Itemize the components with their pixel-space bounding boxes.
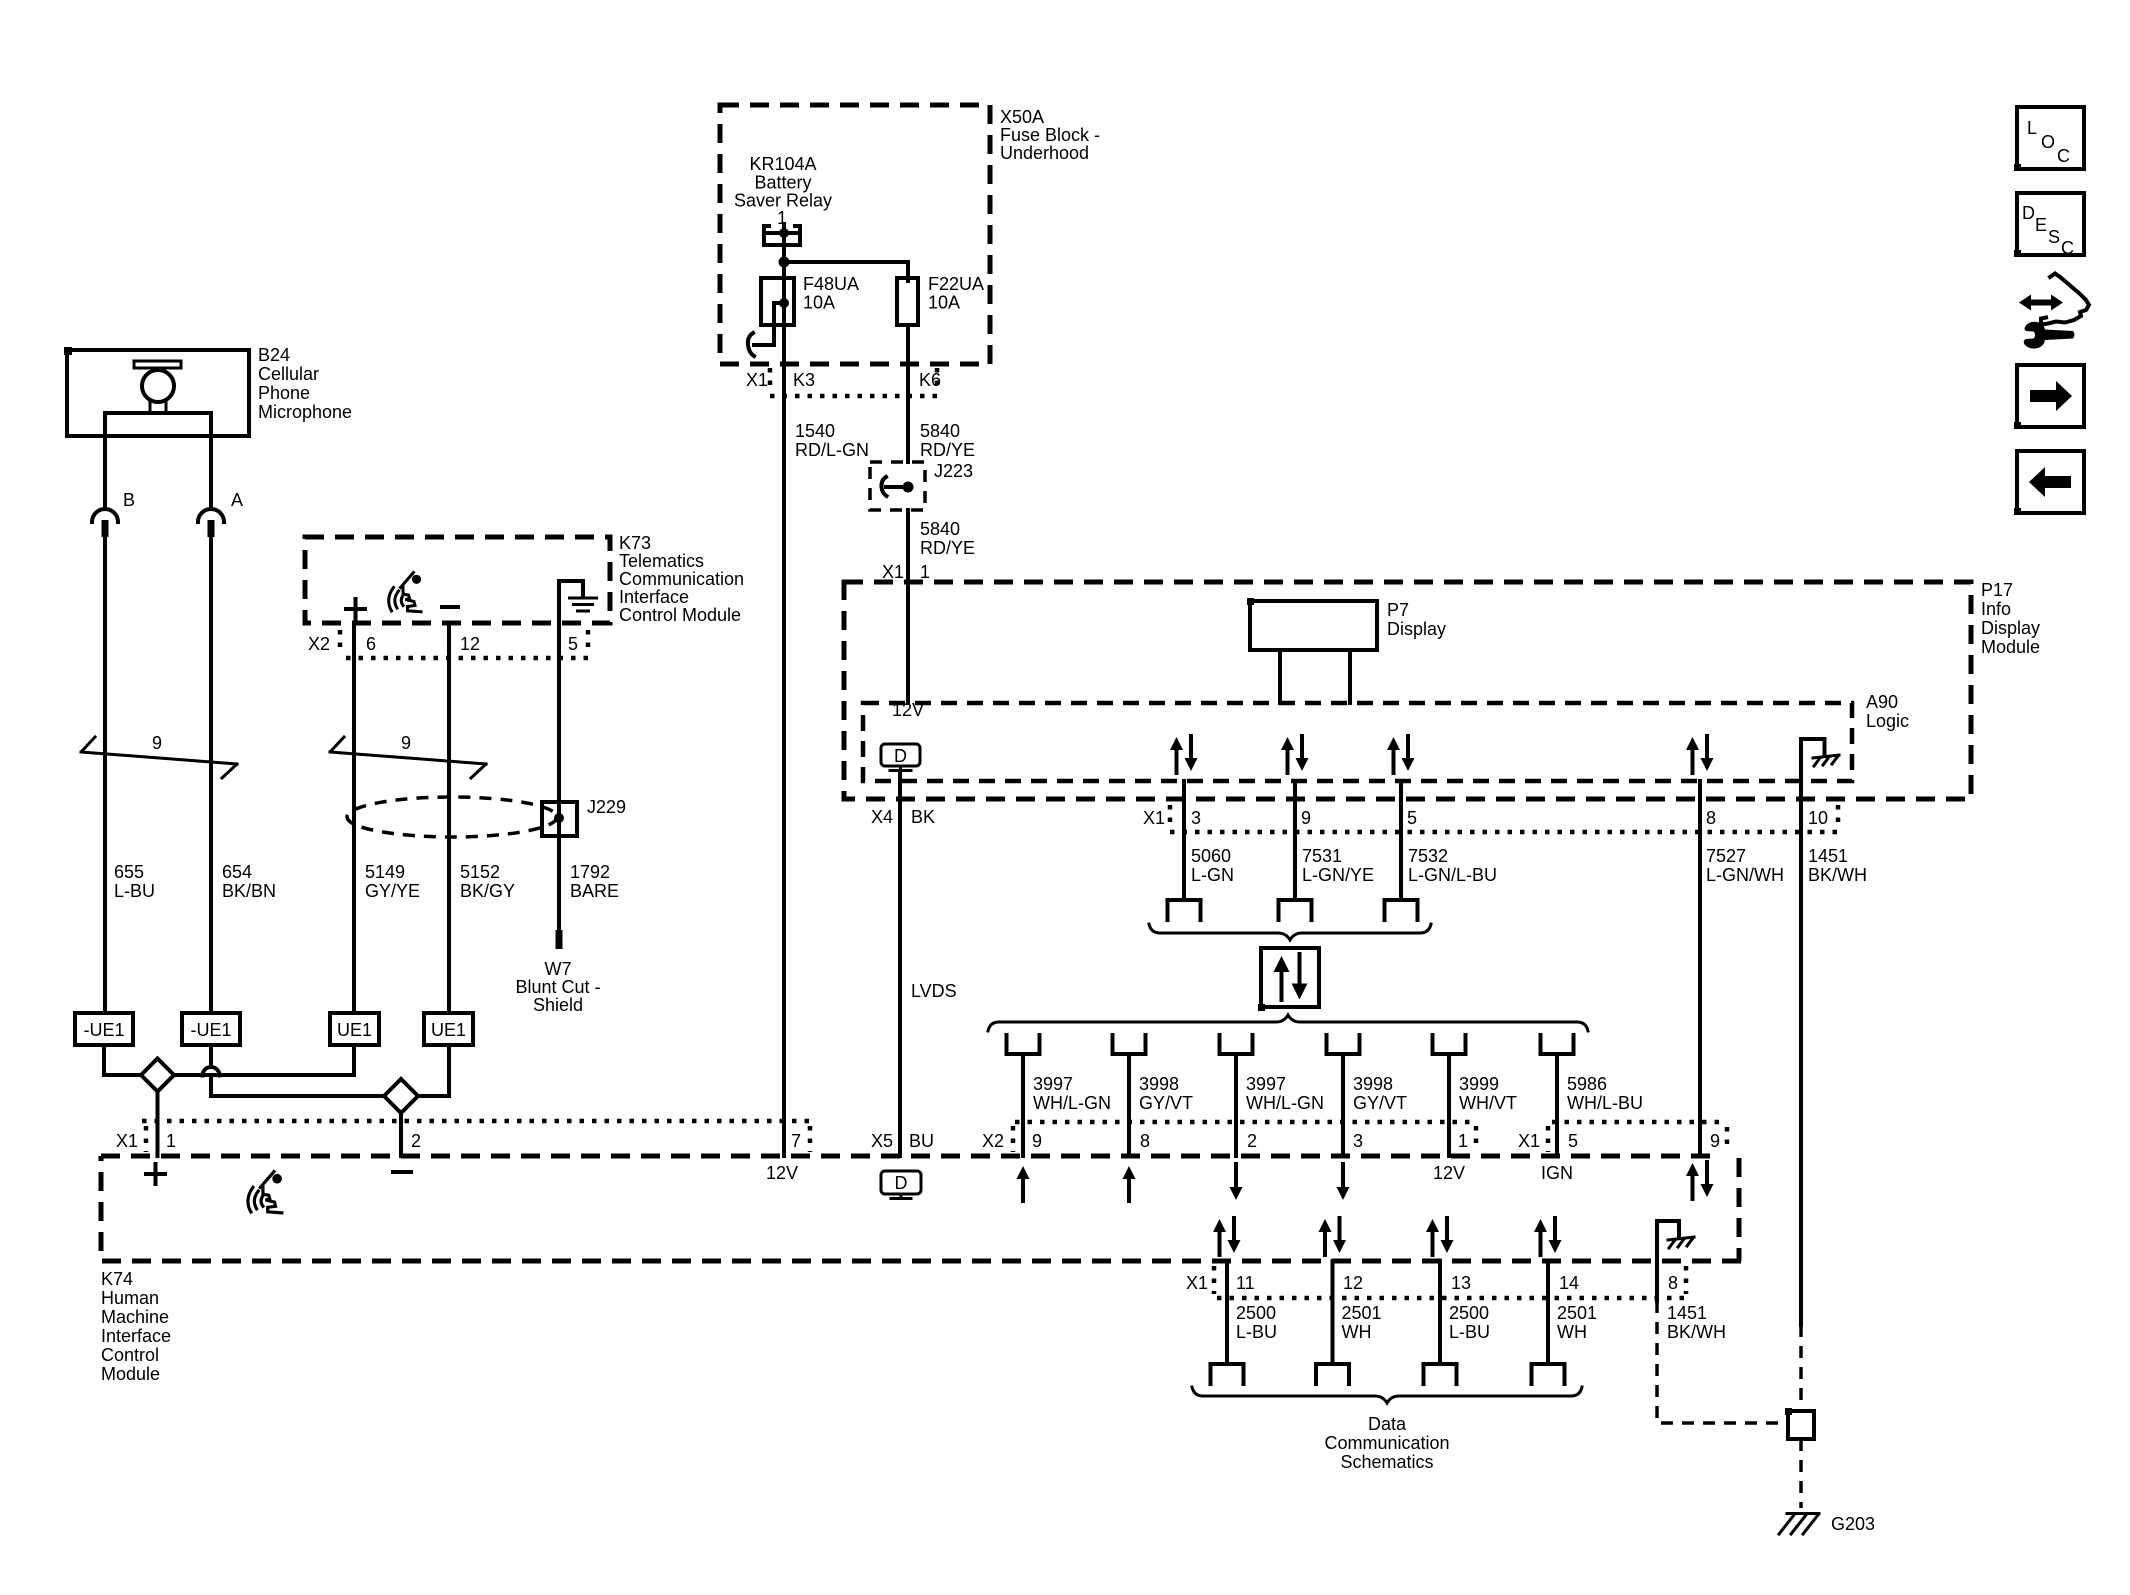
svg-text:L-GN: L-GN — [1191, 865, 1234, 885]
svg-text:UE1: UE1 — [337, 1020, 372, 1040]
wire 5840 RD/YE lower — [908, 510, 975, 582]
ground splice box — [1785, 1408, 1814, 1439]
svg-text:9: 9 — [401, 733, 411, 753]
K74 arrow pair pin 14 — [1534, 1218, 1562, 1255]
module K73 Telematics Communication Interface Control Module — [305, 533, 744, 625]
connector X1 row of K74 right (pins 5,9) — [1518, 1122, 1727, 1152]
fuse block X50A box — [720, 105, 990, 364]
wire B (mic to connector) — [105, 436, 135, 510]
svg-text:Control Module: Control Module — [619, 605, 741, 625]
svg-text:Blunt Cut -: Blunt Cut - — [515, 977, 600, 997]
connector half and wire 3998 GY/VT to K74 pin 8 — [1113, 1035, 1194, 1156]
svg-text:7531: 7531 — [1302, 846, 1342, 866]
svg-text:3997: 3997 — [1246, 1074, 1286, 1094]
svg-text:2501: 2501 — [1557, 1303, 1597, 1323]
svg-text:Fuse Block -: Fuse Block - — [1000, 125, 1100, 145]
svg-text:BARE: BARE — [570, 881, 619, 901]
wire 7527 L-GN/WH — [1700, 781, 1784, 1156]
svg-text:Human: Human — [101, 1288, 159, 1308]
svg-text:14: 14 — [1559, 1273, 1579, 1293]
svg-text:L-GN/L-BU: L-GN/L-BU — [1408, 865, 1497, 885]
connector X4 of P17 — [871, 807, 935, 827]
wire 1451 BK/WH from K74 pin 8 — [1657, 1261, 1788, 1423]
svg-text:9: 9 — [152, 733, 162, 753]
svg-text:1: 1 — [1458, 1131, 1468, 1151]
net label -UE1 (A) — [182, 1013, 240, 1045]
svg-text:11: 11 — [1236, 1273, 1255, 1293]
connector X1 row (K3, K6) of fuse block — [746, 368, 941, 396]
LVDS bus symbol box — [1258, 948, 1319, 1011]
arrow pair A90 pin 9 — [1281, 736, 1309, 773]
wire 2500 L-BU and connector half — [1211, 1261, 1278, 1384]
inline connector B — [92, 509, 118, 537]
svg-text:WH/L-GN: WH/L-GN — [1246, 1093, 1324, 1113]
svg-text:10A: 10A — [803, 293, 835, 313]
svg-text:12V: 12V — [766, 1163, 798, 1183]
wire -UE1 B to diamond — [104, 1045, 141, 1075]
icon LOC box — [2014, 107, 2084, 171]
svg-text:LVDS: LVDS — [911, 981, 957, 1001]
net label UE1 (5149) — [330, 1013, 379, 1045]
svg-text:5: 5 — [568, 634, 578, 654]
wire label 5840 RD/YE upper — [920, 421, 975, 460]
fuse F22UA 10A — [897, 262, 984, 462]
svg-text:WH: WH — [1342, 1322, 1372, 1342]
wire 5149 GY/YE — [354, 623, 420, 1013]
wire 2500 L-BU and connector half — [1424, 1261, 1491, 1384]
svg-text:X2: X2 — [308, 634, 330, 654]
svg-text:1540: 1540 — [795, 421, 835, 441]
svg-text:Telematics: Telematics — [619, 551, 704, 571]
svg-text:5: 5 — [1407, 808, 1417, 828]
connector half pin5 — [1385, 900, 1418, 920]
svg-text:K3: K3 — [793, 370, 815, 390]
svg-text:10: 10 — [1808, 808, 1828, 828]
wire diamond2 to K74 pin 2 — [399, 1113, 403, 1156]
svg-text:BK/BN: BK/BN — [222, 881, 276, 901]
svg-text:X2: X2 — [982, 1131, 1004, 1151]
wire 1451 BK/WH right — [1801, 781, 1867, 1411]
module B24 Cellular Phone Microphone — [64, 345, 352, 436]
svg-text:Underhood: Underhood — [1000, 143, 1089, 163]
wire A (mic to connector) — [211, 436, 243, 510]
svg-text:BU: BU — [909, 1131, 934, 1151]
svg-text:O: O — [2041, 132, 2055, 152]
K74 arrow pair pin 12 — [1319, 1218, 1347, 1255]
svg-text:5840: 5840 — [920, 519, 960, 539]
wire 7531 L-GN/YE — [1295, 781, 1374, 900]
svg-text:GY/VT: GY/VT — [1353, 1093, 1407, 1113]
svg-text:X1: X1 — [1186, 1273, 1208, 1293]
svg-text:BK/WH: BK/WH — [1667, 1322, 1726, 1342]
svg-text:X50A: X50A — [1000, 107, 1044, 127]
svg-text:GY/YE: GY/YE — [365, 881, 420, 901]
svg-text:B: B — [123, 490, 135, 510]
svg-text:2: 2 — [1247, 1131, 1257, 1151]
module K74 Human Machine Interface Control Module — [101, 1156, 1741, 1384]
svg-text:Interface: Interface — [619, 587, 689, 607]
svg-text:1451: 1451 — [1808, 846, 1848, 866]
K74 arrow pair pin 13 — [1426, 1218, 1454, 1255]
svg-text:9: 9 — [1032, 1131, 1042, 1151]
svg-text:A90: A90 — [1866, 692, 1898, 712]
svg-text:D: D — [894, 746, 907, 766]
wire 2501 WH and connector half — [1316, 1261, 1382, 1384]
svg-text:Battery: Battery — [754, 173, 811, 193]
svg-text:3998: 3998 — [1353, 1074, 1393, 1094]
svg-text:X1: X1 — [1518, 1131, 1540, 1151]
svg-text:Schematics: Schematics — [1340, 1452, 1433, 1472]
svg-text:RD/YE: RD/YE — [920, 538, 975, 558]
svg-text:12: 12 — [1343, 1273, 1363, 1293]
svg-text:3: 3 — [1353, 1131, 1363, 1151]
svg-text:7532: 7532 — [1408, 846, 1448, 866]
svg-text:1451: 1451 — [1667, 1303, 1707, 1323]
arrow pair A90 pin 3 — [1170, 736, 1198, 773]
svg-text:C: C — [2057, 146, 2070, 166]
wire 5060 L-GN — [1184, 781, 1234, 900]
connector X2 row of K73 (pins 6,12,5) — [308, 630, 590, 658]
wire 2501 WH and connector half — [1532, 1261, 1598, 1384]
brace gathering LVDS lines — [1149, 924, 1431, 940]
svg-text:6: 6 — [366, 634, 376, 654]
K74 12V label (pin 7) — [766, 1163, 798, 1183]
svg-text:F22UA: F22UA — [928, 274, 984, 294]
wire 1792 BARE (shield) — [559, 623, 619, 930]
wire 654 BK/BN — [211, 537, 276, 1013]
icon back arrow box — [2014, 451, 2084, 515]
connector half and wire 3997 WH/L-GN to K74 pin 2 — [1220, 1035, 1325, 1156]
svg-text:UE1: UE1 — [431, 1020, 466, 1040]
connector half and wire 5986 WH/L-BU to K74 pin 5 — [1541, 1035, 1644, 1156]
svg-text:Module: Module — [1981, 637, 2040, 657]
brace Data Communication Schematics — [1192, 1387, 1582, 1472]
svg-text:F48UA: F48UA — [803, 274, 859, 294]
svg-text:-UE1: -UE1 — [190, 1020, 231, 1040]
svg-text:3997: 3997 — [1033, 1074, 1073, 1094]
svg-text:2500: 2500 — [1449, 1303, 1489, 1323]
display D icon in A90 — [881, 744, 920, 771]
svg-text:E: E — [2035, 215, 2047, 235]
svg-text:Display: Display — [1981, 618, 2040, 638]
label X50A Fuse Block - Underhood — [1000, 107, 1100, 163]
wire 655 L-BU — [105, 537, 155, 1013]
splice diamond 2 — [384, 1079, 418, 1113]
svg-text:D: D — [895, 1173, 908, 1193]
svg-text:BK: BK — [911, 807, 935, 827]
svg-text:Microphone: Microphone — [258, 402, 352, 422]
svg-text:Module: Module — [101, 1364, 160, 1384]
net label -UE1 (B) — [75, 1013, 133, 1045]
svg-text:5: 5 — [1568, 1131, 1578, 1151]
svg-text:L-GN/YE: L-GN/YE — [1302, 865, 1374, 885]
svg-text:X4: X4 — [871, 807, 893, 827]
svg-text:3999: 3999 — [1459, 1074, 1499, 1094]
svg-text:KR104A: KR104A — [749, 154, 816, 174]
svg-text:RD/YE: RD/YE — [920, 440, 975, 460]
svg-text:Control: Control — [101, 1345, 159, 1365]
connector half and wire 3999 WH/VT to K74 pin 1 — [1433, 1035, 1518, 1156]
K74 speaker icon — [248, 1172, 282, 1213]
svg-text:C: C — [2061, 238, 2074, 258]
svg-text:IGN: IGN — [1541, 1163, 1573, 1183]
icon forward arrow box — [2014, 365, 2084, 429]
svg-text:8: 8 — [1668, 1273, 1678, 1293]
K73 speaker icon — [389, 573, 421, 612]
net label UE1 (5152) — [424, 1013, 473, 1045]
junction node — [779, 257, 909, 268]
K74 down arrow pin 2 — [1230, 1164, 1243, 1200]
svg-text:9: 9 — [1301, 808, 1311, 828]
svg-text:WH/L-GN: WH/L-GN — [1033, 1093, 1111, 1113]
connector half and wire 3998 GY/VT to K74 pin 3 — [1327, 1035, 1408, 1156]
K74 internal ground (pin 8) — [1657, 1221, 1694, 1261]
relay KR104A contact, pin 1 — [764, 208, 800, 245]
K74 up arrow pin 8 — [1123, 1166, 1136, 1201]
cable marker 9 conductors (left pair) — [81, 733, 237, 778]
svg-text:WH/VT: WH/VT — [1459, 1093, 1517, 1113]
svg-text:K74: K74 — [101, 1269, 133, 1289]
svg-text:L-BU: L-BU — [1449, 1322, 1490, 1342]
svg-text:BK/GY: BK/GY — [460, 881, 515, 901]
icon DESC box — [2014, 193, 2084, 258]
svg-text:Communication: Communication — [1324, 1433, 1449, 1453]
svg-text:Logic: Logic — [1866, 711, 1909, 731]
svg-text:Info: Info — [1981, 599, 2011, 619]
wire 1540 RD/L-GN (fuse K3 down to K74 pin 7) — [784, 364, 869, 1156]
wire LVDS X4 to K74 X5 — [871, 771, 957, 1156]
arrow pair A90 pin 8 — [1686, 736, 1714, 773]
svg-text:A: A — [231, 490, 243, 510]
svg-text:BK/WH: BK/WH — [1808, 865, 1867, 885]
svg-text:GY/VT: GY/VT — [1139, 1093, 1193, 1113]
arrow pair A90 pin 5 — [1387, 736, 1415, 773]
svg-text:1792: 1792 — [570, 862, 610, 882]
K74 plus terminal — [146, 1164, 165, 1184]
svg-text:1: 1 — [920, 562, 930, 582]
A90 internal ground — [1801, 739, 1839, 781]
ground G203 — [1779, 1514, 1875, 1535]
K74 12V label (pin 1) — [1433, 1163, 1465, 1183]
K74 IGN label (pin 5) — [1541, 1163, 1573, 1183]
K73 minus terminal — [442, 605, 458, 609]
svg-text:654: 654 — [222, 862, 252, 882]
svg-text:L-BU: L-BU — [114, 881, 155, 901]
svg-text:Data: Data — [1368, 1414, 1407, 1434]
twisted pair ellipse — [347, 797, 557, 837]
label KR104A Battery Saver Relay — [734, 154, 832, 211]
microphone symbol — [105, 361, 211, 436]
wire 5152 BK/GY — [449, 623, 515, 1013]
svg-text:5840: 5840 — [920, 421, 960, 441]
wire -UE1 A with hop — [203, 1045, 385, 1096]
wire X1-1 into P17 — [892, 582, 924, 720]
svg-text:Phone: Phone — [258, 383, 310, 403]
svg-text:8: 8 — [1706, 808, 1716, 828]
svg-text:J229: J229 — [587, 797, 626, 817]
pin X1 1 of P17 — [882, 562, 930, 582]
svg-text:G203: G203 — [1831, 1514, 1875, 1534]
svg-text:9: 9 — [1710, 1131, 1720, 1151]
connector X1 row of K74 bottom (pins 11,12,13,14,8) — [1186, 1266, 1690, 1298]
connector half pin3 — [1168, 900, 1201, 920]
svg-text:P17: P17 — [1981, 580, 2013, 600]
K74 arrow pair pin 9 right — [1686, 1162, 1714, 1199]
dashed wire to G203 — [1799, 1439, 1803, 1508]
svg-text:X5: X5 — [871, 1131, 893, 1151]
svg-text:1: 1 — [166, 1131, 176, 1151]
svg-text:12V: 12V — [892, 700, 924, 720]
connector X1 row of K74 top (pins 1,2,7) — [116, 1121, 810, 1152]
svg-text:D: D — [2022, 203, 2035, 223]
svg-text:WH: WH — [1557, 1322, 1587, 1342]
display P7 — [1247, 598, 1446, 703]
svg-text:Cellular: Cellular — [258, 364, 319, 384]
connector X2 row of K74 (pins 9,8,2,3,1) — [982, 1122, 1476, 1152]
svg-text:WH/L-BU: WH/L-BU — [1567, 1093, 1643, 1113]
logic block A90 — [863, 692, 1909, 781]
splice J229 — [542, 797, 626, 836]
wire diamond1 to K74 pin 1 — [156, 1092, 160, 1157]
svg-text:Display: Display — [1387, 619, 1446, 639]
svg-text:10A: 10A — [928, 293, 960, 313]
inline connector A — [198, 509, 224, 537]
wire UE1 horizontal to diamond1 — [174, 1045, 354, 1075]
svg-text:-UE1: -UE1 — [83, 1020, 124, 1040]
connector half and wire 3997 WH/L-GN to K74 pin 9 — [1007, 1035, 1112, 1156]
wire relay to junction — [782, 245, 786, 262]
D icon in K74 — [881, 1171, 921, 1199]
svg-text:3998: 3998 — [1139, 1074, 1179, 1094]
svg-text:8: 8 — [1140, 1131, 1150, 1151]
blunt cut W7 shield — [515, 930, 600, 1015]
svg-text:X1: X1 — [116, 1131, 138, 1151]
svg-text:X1: X1 — [746, 370, 768, 390]
svg-text:5152: 5152 — [460, 862, 500, 882]
K73 earth ground symbol — [559, 581, 597, 658]
svg-text:L-BU: L-BU — [1236, 1322, 1277, 1342]
svg-text:P7: P7 — [1387, 600, 1409, 620]
svg-text:Shield: Shield — [533, 995, 583, 1015]
svg-text:K6: K6 — [919, 370, 941, 390]
svg-text:L-GN/WH: L-GN/WH — [1706, 865, 1784, 885]
svg-text:3: 3 — [1191, 808, 1201, 828]
svg-text:2501: 2501 — [1342, 1303, 1382, 1323]
brace spreading LVDS lines — [988, 1015, 1588, 1031]
svg-text:5149: 5149 — [365, 862, 405, 882]
svg-text:2: 2 — [411, 1131, 421, 1151]
connector X1 row of P17 — [1143, 805, 1838, 832]
svg-text:X1: X1 — [882, 562, 904, 582]
svg-text:L: L — [2027, 118, 2037, 138]
K74 up arrow pin 9 — [1017, 1166, 1030, 1201]
svg-text:13: 13 — [1451, 1273, 1471, 1293]
svg-text:12V: 12V — [1433, 1163, 1465, 1183]
module P17 Info Display Module — [844, 580, 2040, 799]
svg-text:X1: X1 — [1143, 808, 1165, 828]
cable marker 9 conductors (K73 pair) — [330, 733, 486, 778]
svg-text:5060: 5060 — [1191, 846, 1231, 866]
K74 down arrow pin 3 — [1337, 1164, 1350, 1200]
svg-text:12: 12 — [460, 634, 480, 654]
wire UE1 (5152) to diamond2 — [418, 1045, 449, 1096]
svg-text:K73: K73 — [619, 533, 651, 553]
wire 7532 L-GN/L-BU — [1401, 781, 1497, 900]
svg-text:Machine: Machine — [101, 1307, 169, 1327]
svg-text:J223: J223 — [934, 461, 973, 481]
K74 arrow pair pin 11 — [1213, 1218, 1241, 1255]
svg-text:655: 655 — [114, 862, 144, 882]
svg-text:5986: 5986 — [1567, 1074, 1607, 1094]
splice diamond 1 — [141, 1059, 174, 1092]
splice J223 — [870, 461, 973, 510]
icon vehicle-view (car with double arrow and wrench) — [2019, 274, 2089, 349]
svg-text:RD/L-GN: RD/L-GN — [795, 440, 869, 460]
svg-text:S: S — [2048, 227, 2060, 247]
svg-text:Interface: Interface — [101, 1326, 171, 1346]
connector half pin9 — [1279, 900, 1312, 920]
svg-text:W7: W7 — [545, 959, 572, 979]
K74 minus terminal — [393, 1170, 411, 1174]
fuse F48UA 10A — [748, 262, 859, 364]
svg-text:7: 7 — [791, 1131, 801, 1151]
svg-text:2500: 2500 — [1236, 1303, 1276, 1323]
svg-text:7527: 7527 — [1706, 846, 1746, 866]
svg-text:B24: B24 — [258, 345, 290, 365]
svg-text:Communication: Communication — [619, 569, 744, 589]
K73 plus terminal — [346, 599, 365, 619]
